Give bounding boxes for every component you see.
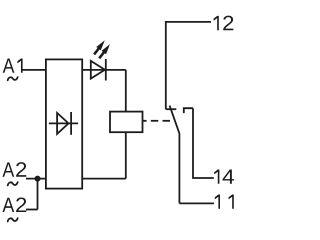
- wire junction down: [37, 179, 39, 210]
- wire terminal 14: [193, 108, 214, 178]
- wire A2 to rectifier: [26, 178, 46, 180]
- LED triangle: [91, 61, 105, 79]
- diode D1 triangle: [57, 113, 68, 134]
- label A2 upper: [2, 162, 26, 177]
- wire terminal 12: [166, 22, 211, 109]
- AC tilde under lower A2: [8, 218, 18, 221]
- label 14: [214, 169, 234, 183]
- diode D1 axis wire: [49, 122, 78, 124]
- wire A1 to rectifier: [22, 69, 46, 71]
- contact 14 seat: [184, 108, 193, 113]
- LED cathode bar: [105, 59, 107, 81]
- LED emission arrow 2: [99, 44, 110, 58]
- wire LED corner down to coil: [125, 70, 127, 112]
- diode D1 cathode bar: [70, 112, 72, 135]
- label A1: [3, 58, 23, 72]
- rectifier block: [46, 59, 82, 188]
- wire terminal 11: [179, 202, 214, 204]
- wire lower A2: [26, 209, 38, 211]
- AC tilde under upper A2: [8, 182, 18, 185]
- LED emission arrow 1: [94, 40, 105, 54]
- AC tilde under A1: [8, 77, 18, 80]
- junction dot A2: [35, 176, 41, 182]
- label A2 lower: [2, 197, 26, 212]
- contact blade: [170, 106, 180, 204]
- label 12: [214, 16, 234, 31]
- wire coil return to rectifier: [82, 178, 126, 180]
- wire rectifier to LED: [82, 69, 126, 71]
- label 11: [215, 194, 234, 208]
- contact 12 seat foot: [166, 108, 177, 110]
- dashed mechanical link: [143, 120, 171, 122]
- wire coil bottom down: [125, 132, 127, 178]
- relay coil K1: [110, 112, 143, 133]
